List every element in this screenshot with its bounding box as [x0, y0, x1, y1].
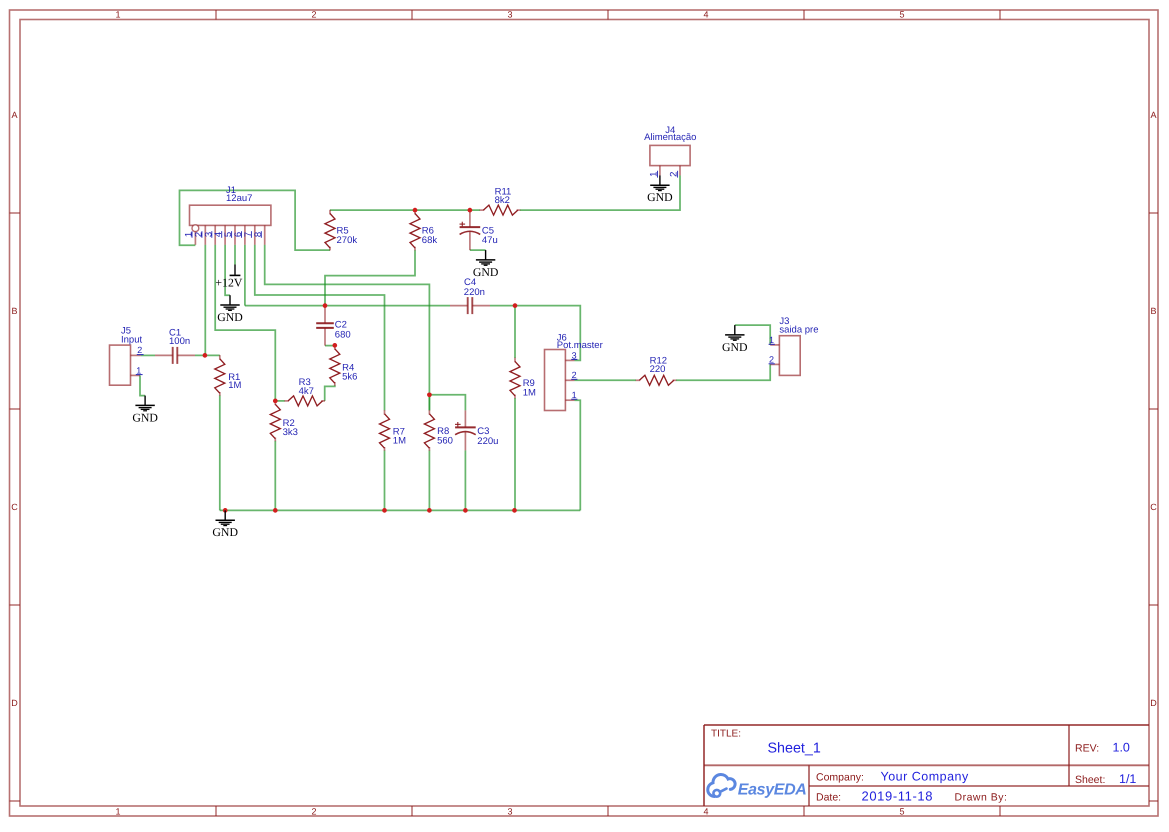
- wire C3 bottom to bus: [464, 450, 466, 510]
- svg-text:2: 2: [137, 345, 142, 355]
- svg-text:8k2: 8k2: [495, 195, 510, 206]
- ground near J3: [734, 325, 736, 335]
- J1 pin stubs 1-8: [194, 225, 196, 244]
- wire J1 pin6 down: [244, 245, 246, 306]
- wire node C1-R1 horizontal: [195, 354, 220, 356]
- wire J1 pin4 to GND: [225, 245, 230, 295]
- resistor R4: [334, 345, 336, 350]
- svg-text:1M: 1M: [393, 435, 406, 446]
- svg-text:C: C: [1150, 502, 1157, 512]
- wire R8 node to C3 top: [429, 395, 465, 411]
- svg-text:100n: 100n: [169, 336, 190, 347]
- wire R1 bottom to ground bus corner: [219, 395, 221, 510]
- svg-text:REV:: REV:: [1075, 743, 1099, 755]
- svg-text:A: A: [1150, 110, 1156, 120]
- svg-text:1: 1: [115, 10, 120, 20]
- connector J6 body: [545, 350, 566, 411]
- wire J3 pin1 to GND: [735, 325, 770, 345]
- svg-text:1.0: 1.0: [1113, 741, 1130, 755]
- wire J1 pin1 loop to R5 bottom: [180, 190, 331, 250]
- svg-text:4: 4: [703, 806, 708, 816]
- svg-text:1M: 1M: [523, 387, 536, 398]
- capacitor C4: [450, 305, 468, 307]
- svg-text:5k6: 5k6: [342, 372, 357, 383]
- resistor R1: [219, 355, 221, 360]
- wire C2 bottom to R4 top node: [325, 345, 335, 347]
- wire top rail R5-R6-C5-R11: [330, 209, 480, 211]
- junction R9 top node: [513, 303, 518, 308]
- svg-text:Alimentação: Alimentação: [644, 132, 696, 143]
- wire R11 right to J4 pin2: [520, 175, 680, 210]
- J4 pin stubs: [659, 166, 661, 176]
- wire R4 bottom to R3 right: [325, 385, 335, 401]
- svg-text:GND: GND: [217, 310, 243, 324]
- svg-text:5: 5: [899, 10, 904, 20]
- wire C4 node to R9 top: [514, 306, 516, 358]
- svg-text:2: 2: [311, 806, 316, 816]
- junction bus R9: [512, 508, 517, 513]
- svg-text:220n: 220n: [464, 287, 485, 298]
- ground below C5: [485, 250, 487, 260]
- junction C2-R4 node: [332, 343, 337, 348]
- svg-text:GND: GND: [722, 340, 748, 354]
- svg-text:GND: GND: [473, 265, 499, 279]
- svg-text:+12V: +12V: [215, 276, 242, 290]
- wire C4 right to J6 pin3: [490, 306, 580, 361]
- svg-text:Drawn By:: Drawn By:: [955, 792, 1008, 804]
- svg-text:Date:: Date:: [816, 792, 841, 804]
- wire R12 right to J3 pin2: [676, 364, 770, 380]
- resistor R2: [274, 401, 276, 406]
- capacitor C2: [324, 306, 326, 324]
- svg-text:C: C: [11, 502, 18, 512]
- wire R8 bottom to bus: [428, 450, 430, 510]
- svg-text:1: 1: [769, 335, 774, 345]
- title block frame: [704, 724, 1149, 726]
- wire J1 pin3 to R3/R2 node: [215, 245, 275, 401]
- junction bus C3: [463, 508, 468, 513]
- connector J3 body: [779, 336, 800, 376]
- resistor R11: [480, 209, 485, 211]
- svg-text:B: B: [11, 306, 17, 316]
- svg-text:4k7: 4k7: [299, 386, 314, 397]
- junction R3-R2-pin3 node: [273, 399, 278, 404]
- svg-text:3k3: 3k3: [283, 427, 298, 438]
- svg-text:560: 560: [437, 435, 453, 446]
- svg-text:1: 1: [115, 806, 120, 816]
- junction C2 top node: [323, 303, 328, 308]
- junction bus R2: [273, 508, 278, 513]
- svg-text:TITLE:: TITLE:: [711, 729, 741, 740]
- wire R6 bottom to C2 node: [325, 250, 415, 306]
- resistor R6: [414, 210, 416, 215]
- svg-text:3: 3: [507, 10, 512, 20]
- svg-text:2: 2: [572, 370, 577, 380]
- svg-text:Company:: Company:: [816, 771, 864, 783]
- capacitor C1: [155, 354, 173, 356]
- svg-text:1M: 1M: [228, 380, 241, 391]
- EasyEDA logo cloud: [708, 774, 735, 796]
- svg-text:12au7: 12au7: [226, 193, 252, 204]
- junction bus R7: [382, 508, 387, 513]
- wire J1 pin5 to +12V: [234, 245, 236, 265]
- svg-text:A: A: [11, 110, 17, 120]
- column ticks top/bottom: [215, 10, 217, 20]
- svg-text:47u: 47u: [482, 235, 498, 246]
- ground below J5: [144, 396, 146, 406]
- J5 pin stubs: [131, 354, 141, 356]
- svg-text:Your Company: Your Company: [881, 769, 969, 783]
- wire R9 bottom to bus: [514, 398, 516, 510]
- junction R6 top on rail: [413, 208, 418, 213]
- svg-text:680: 680: [335, 330, 351, 341]
- power +12V at J1 pin5: [234, 265, 236, 275]
- svg-text:Sheet:: Sheet:: [1075, 774, 1105, 786]
- row ticks left/right: [10, 212, 21, 214]
- resistor R12: [636, 379, 641, 381]
- svg-text:68k: 68k: [422, 235, 438, 246]
- resistor R3: [284, 400, 289, 402]
- svg-text:1: 1: [136, 365, 141, 375]
- wire R2 bottom to ground bus: [274, 441, 276, 511]
- svg-text:Pot.master: Pot.master: [557, 340, 603, 351]
- svg-text:3: 3: [572, 350, 577, 360]
- resistor R8: [428, 410, 430, 415]
- resistor R5: [329, 210, 331, 215]
- svg-text:saida pre: saida pre: [779, 325, 818, 336]
- junction R8-C3 node: [427, 392, 432, 397]
- junction C5 top on rail: [468, 208, 473, 213]
- wire J5 pin1 to GND: [140, 375, 145, 395]
- svg-text:B: B: [1150, 306, 1156, 316]
- J1 pin1 circle: [192, 225, 199, 232]
- wire node pin6 to C4 left: [245, 305, 450, 307]
- ground bus horizontal: [220, 509, 581, 511]
- ground below J4 pin1: [659, 175, 661, 185]
- svg-text:Input: Input: [121, 334, 142, 345]
- connector J4 body: [650, 145, 690, 165]
- svg-text:2019-11-18: 2019-11-18: [862, 789, 934, 804]
- capacitor C3 electrolytic: [464, 410, 466, 427]
- J3 pin stubs: [770, 344, 779, 346]
- resistor R7: [384, 410, 386, 415]
- svg-text:D: D: [11, 698, 18, 708]
- junction bus R8: [427, 508, 432, 513]
- svg-text:220u: 220u: [477, 436, 498, 447]
- svg-text:EasyEDA: EasyEDA: [738, 782, 807, 799]
- svg-text:2: 2: [311, 10, 316, 20]
- svg-text:1: 1: [572, 390, 577, 400]
- wire C1 left to J5 pin2: [141, 354, 155, 356]
- svg-text:2: 2: [769, 355, 774, 365]
- wire R7 bottom to bus: [384, 450, 386, 510]
- svg-text:220: 220: [650, 364, 666, 375]
- wire J1 pin2 to C1/R1 node: [204, 245, 206, 356]
- connector J5 body: [110, 345, 131, 385]
- wire C5 bottom to GND: [470, 249, 486, 251]
- ground at bus bottom: [224, 510, 226, 520]
- junction bus GND tap: [223, 508, 228, 513]
- svg-text:4: 4: [703, 10, 708, 20]
- svg-text:GND: GND: [647, 190, 673, 204]
- wire J1 pin8 to R8: [265, 245, 430, 411]
- ground at J1 pin4: [229, 295, 231, 305]
- svg-text:8: 8: [253, 232, 264, 237]
- svg-text:D: D: [1150, 698, 1157, 708]
- svg-text:GND: GND: [212, 525, 238, 539]
- wire J1 pin7 to R7: [255, 245, 385, 411]
- J6 pin stubs: [565, 359, 574, 361]
- connector J1 12au7 body: [190, 205, 271, 225]
- svg-text:3: 3: [507, 806, 512, 816]
- svg-text:270k: 270k: [337, 235, 358, 246]
- svg-text:Sheet_1: Sheet_1: [768, 740, 821, 756]
- wire R8 top segment from pin8 node: [428, 395, 430, 411]
- junction C1-R1-pin2 node: [203, 353, 208, 358]
- wire node to R3 left: [275, 400, 284, 402]
- svg-text:1/1: 1/1: [1119, 772, 1136, 786]
- capacitor C5 electrolytic: [469, 210, 471, 227]
- wire J6 pin2 to R12 left: [575, 379, 637, 381]
- svg-text:GND: GND: [132, 410, 158, 424]
- resistor R9: [514, 358, 516, 363]
- wire J6 pin1 to ground bus: [575, 400, 581, 510]
- svg-text:5: 5: [899, 806, 904, 816]
